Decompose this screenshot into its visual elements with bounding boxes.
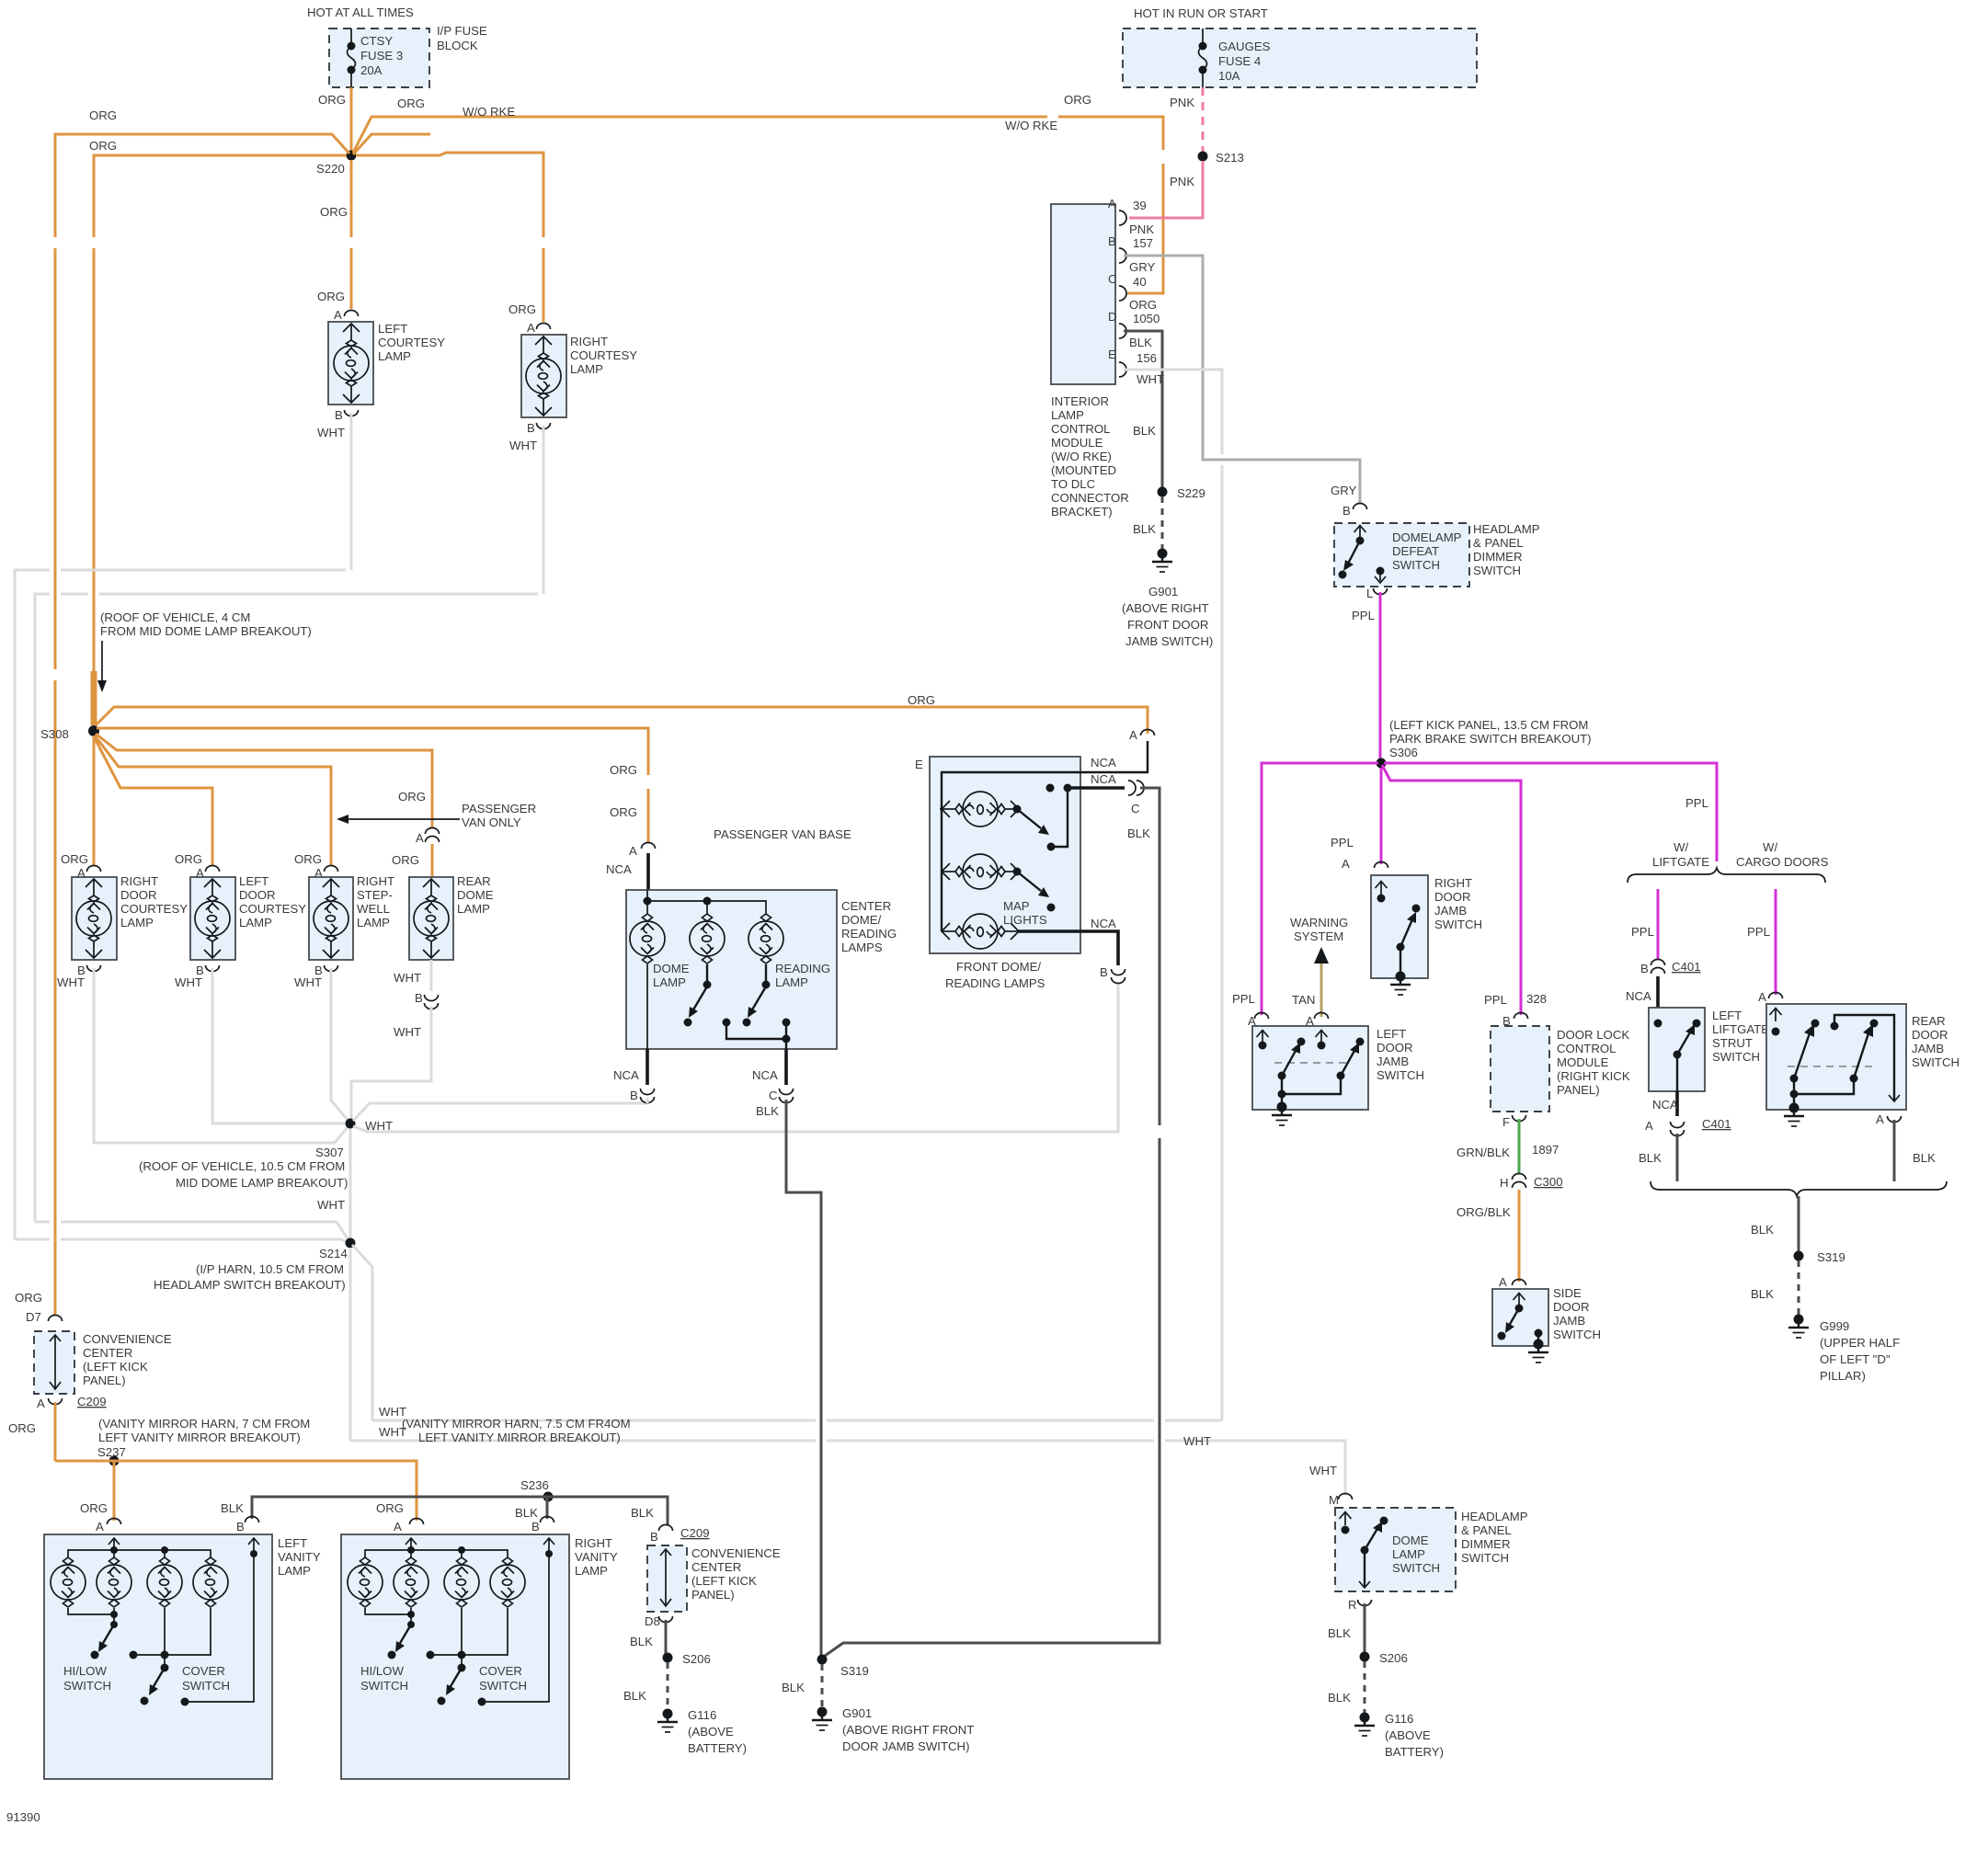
svg-text:I/P FUSE: I/P FUSE [437,24,487,38]
svg-text:PPL: PPL [1352,609,1375,622]
wire PPL to rear door jamb switch [1775,889,1777,995]
svg-text:FRONT DOME/: FRONT DOME/ [956,960,1041,974]
svg-text:(ROOF OF VEHICLE, 10.5 CM FROM: (ROOF OF VEHICLE, 10.5 CM FROM [139,1159,345,1173]
svg-text:INTERIOR: INTERIOR [1051,394,1109,408]
svg-text:& PANEL: & PANEL [1461,1523,1512,1537]
svg-text:TAN: TAN [1292,993,1315,1007]
svg-text:BLK: BLK [1127,827,1150,840]
svg-text:L: L [1366,587,1373,600]
svg-text:S236: S236 [520,1478,549,1492]
svg-text:STEP-: STEP- [357,888,393,902]
svg-text:A: A [1499,1275,1507,1289]
ground G901 (left) [812,1707,832,1731]
svg-text:DOME: DOME [653,962,690,975]
svg-text:NCA: NCA [606,862,632,876]
svg-text:BLK: BLK [1129,336,1152,349]
svg-text:SWITCH: SWITCH [1912,1055,1959,1069]
svg-text:FUSE 3: FUSE 3 [360,49,403,63]
svg-text:S220: S220 [316,162,345,176]
svg-text:ORG: ORG [398,790,426,804]
svg-text:A: A [1108,197,1116,211]
svg-text:S319: S319 [1817,1250,1845,1264]
box RIGHT VANITY LAMP [341,1534,569,1779]
svg-text:DEFEAT: DEFEAT [1392,544,1439,558]
svg-text:G116: G116 [1385,1712,1413,1726]
wire internal bus left vanity [68,1550,211,1557]
wire S307 to center dome pin B [353,1098,647,1121]
svg-text:C: C [1108,272,1117,286]
wire BLK from pin C to S319 [786,1100,822,1657]
svg-text:BLK: BLK [631,1506,654,1520]
svg-text:GRY: GRY [1129,260,1156,274]
map lamp 3 [942,914,1019,949]
svg-text:S319: S319 [840,1664,869,1678]
svg-text:91390: 91390 [6,1810,40,1824]
wire PPL S306 to right door jamb switch [1380,768,1383,864]
wire BLK from map lights C to S319 [825,788,1160,1656]
svg-text:1897: 1897 [1532,1143,1559,1157]
wire S220 left branch to S308 [94,155,347,725]
svg-text:NCA: NCA [1652,1098,1678,1112]
svg-text:(ABOVE: (ABOVE [688,1725,734,1739]
svg-text:COURTESY: COURTESY [378,336,445,349]
svg-text:G901: G901 [1148,585,1178,599]
svg-text:WHT: WHT [394,1025,421,1039]
svg-text:ORG: ORG [610,805,637,819]
wire S308 to left door courtesy lamp (ORG) [94,736,212,866]
svg-text:REAR: REAR [1912,1014,1946,1028]
svg-text:NCA: NCA [1091,772,1116,786]
svg-text:LAMP: LAMP [357,916,390,929]
wire fuse to S220 [350,87,353,153]
lamp right vanity bulb 4 [490,1557,525,1607]
svg-text:E: E [915,758,923,771]
svg-text:A: A [527,321,535,335]
svg-text:WHT: WHT [1137,372,1164,386]
svg-text:DOOR: DOOR [1377,1041,1413,1055]
svg-text:BLK: BLK [515,1506,538,1520]
wire internal bus right vanity [365,1550,508,1557]
svg-text:NCA: NCA [1091,917,1116,930]
map lamp 1 [942,792,1019,827]
wire S307 down to S214 [349,1129,352,1243]
svg-text:PPL: PPL [1685,796,1708,810]
svg-text:DOOR LOCK: DOOR LOCK [1557,1028,1629,1042]
svg-text:CENTER: CENTER [841,899,891,913]
svg-text:F: F [1502,1115,1510,1129]
svg-text:(UPPER HALF: (UPPER HALF [1820,1336,1900,1350]
lamp (middle) [690,914,725,964]
lamp left vanity bulb 2 [97,1557,131,1607]
svg-text:B: B [1342,504,1351,518]
svg-text:MID DOME LAMP BREAKOUT): MID DOME LAMP BREAKOUT) [176,1176,348,1190]
svg-text:HEADLAMP: HEADLAMP [1461,1510,1528,1523]
svg-text:A: A [96,1520,104,1534]
fuse GAUGES FUSE 4 in dashed block [1123,29,1477,87]
svg-text:VANITY: VANITY [278,1550,321,1564]
svg-text:ORG: ORG [89,108,117,122]
wire PNK to module pin A [1129,161,1203,218]
svg-text:ORG: ORG [294,852,322,866]
svg-text:MODULE: MODULE [1557,1055,1609,1069]
wire PPL S306 to door lock module [1382,765,1521,1015]
svg-text:PANEL): PANEL) [691,1588,735,1602]
svg-text:ORG: ORG [376,1501,404,1515]
svg-text:BLK: BLK [221,1501,244,1515]
wire thick breakout segment above S308 [91,671,97,725]
svg-text:WARNING: WARNING [1290,916,1348,929]
svg-text:JAMB SWITCH): JAMB SWITCH) [1125,634,1213,648]
svg-text:BRACKET): BRACKET) [1051,505,1113,519]
svg-text:A: A [1758,990,1766,1004]
svg-text:HI/LOW: HI/LOW [63,1664,107,1678]
svg-text:B: B [335,408,343,422]
svg-text:GRN/BLK: GRN/BLK [1457,1146,1510,1159]
svg-text:C401: C401 [1702,1117,1731,1131]
svg-text:COURTESY: COURTESY [120,902,188,916]
svg-text:READING LAMPS: READING LAMPS [945,976,1045,990]
svg-text:WHT: WHT [394,971,421,985]
lamp left vanity bulb 4 [193,1557,228,1607]
svg-text:LIFTGATE: LIFTGATE [1652,855,1709,869]
svg-text:A: A [416,831,424,845]
wire S307 to front dome pin B [353,982,1118,1132]
svg-text:ORG: ORG [15,1291,42,1305]
svg-text:WHT: WHT [1183,1434,1211,1448]
svg-text:RIGHT: RIGHT [120,874,158,888]
svg-text:C300: C300 [1534,1175,1563,1189]
svg-text:ORG: ORG [397,97,425,110]
wire right door WHT to S307 [94,968,348,1143]
svg-text:SWITCH: SWITCH [479,1679,527,1693]
switch LEFT DOOR JAMB SWITCH [1252,1026,1368,1110]
svg-text:39: 39 [1133,199,1147,212]
SEC1 [1051,6,1477,1420]
svg-text:READING: READING [775,962,830,975]
switch LEFT LIFTGATE STRUT SWITCH [1649,1008,1705,1091]
svg-text:C401: C401 [1672,960,1701,974]
svg-text:MAP: MAP [1003,899,1030,913]
svg-text:W/: W/ [1674,840,1688,854]
svg-text:ORG: ORG [392,853,419,867]
svg-text:WHT: WHT [57,975,85,989]
svg-text:ORG: ORG [61,852,88,866]
svg-text:JAMB: JAMB [1377,1055,1409,1068]
svg-text:ORG: ORG [317,290,345,303]
svg-text:(LEFT KICK PANEL, 13.5 CM FROM: (LEFT KICK PANEL, 13.5 CM FROM [1389,718,1588,732]
svg-text:LEFT VANITY MIRROR BREAKOUT): LEFT VANITY MIRROR BREAKOUT) [418,1431,621,1444]
map lamp 2 [942,854,1019,889]
switch HI/LOW (left vanity) [68,1608,114,1625]
svg-text:40: 40 [1133,275,1147,289]
svg-text:157: 157 [1133,236,1153,250]
svg-text:DOOR: DOOR [1553,1300,1590,1314]
svg-text:REAR: REAR [457,874,491,888]
wire left vanity return to B [185,1552,254,1702]
svg-text:BLK: BLK [1328,1626,1351,1640]
svg-text:DOOR JAMB SWITCH): DOOR JAMB SWITCH) [842,1739,969,1753]
wire PPL S306 to left door jamb switch [1262,763,1378,1015]
lamp REAR DOME LAMP [409,877,453,960]
wire ORG S237 bus [55,1461,417,1521]
svg-text:LEFT: LEFT [278,1536,307,1550]
svg-text:LAMP: LAMP [120,916,154,929]
svg-text:PPL: PPL [1747,925,1770,939]
svg-text:LAMP: LAMP [1392,1547,1425,1561]
wire right courtesy WHT to S214 [35,426,543,1243]
svg-text:COVER: COVER [182,1664,225,1678]
switch RIGHT DOOR JAMB SWITCH [1371,875,1428,978]
svg-text:ORG: ORG [1129,298,1157,312]
svg-text:B: B [1640,962,1649,975]
svg-text:A: A [629,844,637,858]
dome lamp output to pin B [646,964,648,1049]
svg-text:JAMB: JAMB [1912,1042,1944,1055]
svg-text:BLK: BLK [756,1104,779,1118]
svg-text:BLK: BLK [630,1635,653,1648]
svg-text:CONVENIENCE: CONVENIENCE [83,1332,172,1346]
lamp right vanity bulb 3 [444,1557,479,1607]
wire ORG down to S237 [54,1402,57,1461]
svg-text:DOOR: DOOR [1912,1028,1948,1042]
svg-text:WHT: WHT [294,975,322,989]
svg-text:B: B [650,1530,658,1544]
svg-text:DIMMER: DIMMER [1473,550,1522,564]
wire PPL to liftgate strut switch [1657,889,1660,960]
svg-text:(I/P HARN, 10.5 CM FROM: (I/P HARN, 10.5 CM FROM [196,1262,344,1276]
svg-text:156: 156 [1137,351,1157,365]
switch REAR DOOR JAMB SWITCH [1766,1004,1906,1110]
svg-text:B: B [1108,234,1116,248]
svg-text:WHT: WHT [1309,1464,1337,1477]
svg-text:OF LEFT "D": OF LEFT "D" [1820,1352,1891,1366]
svg-text:328: 328 [1526,992,1547,1006]
svg-text:B: B [415,991,423,1005]
svg-text:ORG: ORG [318,93,346,107]
svg-text:SWITCH: SWITCH [360,1679,408,1693]
switch HI/LOW (right vanity) [365,1608,411,1625]
svg-text:DOMELAMP: DOMELAMP [1392,530,1462,544]
svg-text:(ABOVE RIGHT: (ABOVE RIGHT [1122,601,1209,615]
wire PPL S306 to liftgate/cargo brace [1384,763,1717,861]
svg-text:COURTESY: COURTESY [239,902,306,916]
wire GRN/BLK 1897 [1518,1119,1521,1173]
svg-text:SWITCH: SWITCH [1461,1551,1509,1565]
svg-text:BLOCK: BLOCK [437,39,478,52]
svg-text:GAUGES: GAUGES [1218,40,1271,53]
svg-text:PANEL): PANEL) [1557,1083,1600,1097]
svg-text:S308: S308 [40,727,69,741]
wire W/O RKE to module pin C [353,117,1163,293]
wire stub ORG [353,134,430,154]
node S213 [1198,152,1208,162]
svg-text:(ABOVE RIGHT FRONT: (ABOVE RIGHT FRONT [842,1723,974,1737]
svg-text:SWITCH: SWITCH [1392,558,1440,572]
svg-text:LAMP: LAMP [575,1564,608,1578]
svg-text:ORG: ORG [908,693,935,707]
wire S220 to right courtesy lamp [356,153,543,322]
svg-text:FUSE 4: FUSE 4 [1218,54,1261,68]
SEC4 [1232,504,1959,1384]
svg-text:CENTER: CENTER [83,1346,132,1360]
wire rear dome WHT to S307 [351,960,431,1119]
switch arms inside [703,981,712,989]
svg-text:PPL: PPL [1331,836,1354,849]
svg-text:NCA: NCA [752,1068,778,1082]
svg-text:HOT AT ALL TIMES: HOT AT ALL TIMES [307,6,414,19]
node S306 [1377,758,1387,769]
svg-text:CTSY: CTSY [360,34,393,48]
svg-text:SWITCH: SWITCH [1712,1050,1760,1064]
svg-text:LEFT: LEFT [239,874,268,888]
svg-text:SYSTEM: SYSTEM [1294,929,1343,943]
svg-text:BLK: BLK [623,1689,646,1703]
svg-text:& PANEL: & PANEL [1473,536,1524,550]
svg-text:BATTERY): BATTERY) [688,1741,747,1755]
svg-text:VAN ONLY: VAN ONLY [462,815,521,829]
svg-text:PASSENGER VAN BASE: PASSENGER VAN BASE [714,827,851,841]
svg-text:DOME/: DOME/ [841,913,882,927]
wire left door WHT to S307 [212,968,345,1123]
svg-text:M: M [1329,1493,1339,1507]
lamp left vanity bulb 3 [147,1557,182,1607]
svg-text:S307: S307 [315,1146,344,1159]
svg-text:BLK: BLK [1751,1287,1774,1301]
wire PNK dashed to S213 [1202,87,1205,152]
svg-text:ORG/BLK: ORG/BLK [1457,1205,1511,1219]
svg-text:D8: D8 [645,1614,660,1628]
svg-text:SWITCH: SWITCH [1392,1561,1440,1575]
svg-text:LAMP: LAMP [278,1564,311,1578]
svg-text:WHT: WHT [317,426,345,439]
svg-text:PNK: PNK [1170,175,1194,188]
lamp READING LAMP [748,914,783,964]
svg-text:A: A [1876,1112,1884,1126]
svg-text:FROM MID DOME LAMP BREAKOUT): FROM MID DOME LAMP BREAKOUT) [100,624,312,638]
svg-text:LAMP: LAMP [239,916,272,929]
wire PPL defeat switch to S306 [1379,592,1382,760]
svg-text:LIFTGATE: LIFTGATE [1712,1022,1769,1036]
svg-text:PASSENGER: PASSENGER [462,802,536,815]
wire ORG/BLK [1518,1190,1521,1282]
node S220 [347,151,357,161]
svg-text:DOOR: DOOR [1434,890,1471,904]
svg-text:LEFT: LEFT [1712,1009,1742,1022]
ground G901 [1152,549,1172,573]
wire S308 down to right door courtesy lamp (ORG) [93,735,96,866]
svg-text:A: A [394,1520,402,1534]
svg-text:DIMMER: DIMMER [1461,1537,1510,1551]
svg-text:FRONT DOOR: FRONT DOOR [1127,618,1208,632]
svg-text:PILLAR): PILLAR) [1820,1369,1866,1383]
svg-text:10A: 10A [1218,69,1240,83]
svg-text:A: A [334,308,342,322]
wire right vanity return to B [482,1552,549,1702]
module INTERIOR LAMP CONTROL MODULE [1051,204,1115,384]
node S308 [88,725,99,736]
svg-text:HEADLAMP SWITCH BREAKOUT): HEADLAMP SWITCH BREAKOUT) [154,1278,346,1292]
lamp right vanity bulb 2 [394,1557,428,1607]
svg-text:RIGHT: RIGHT [570,335,608,348]
svg-text:SIDE: SIDE [1553,1286,1582,1300]
svg-text:S213: S213 [1216,151,1244,165]
svg-text:WHT: WHT [317,1198,345,1212]
svg-text:CONVENIENCE: CONVENIENCE [691,1546,781,1560]
svg-text:(ABOVE: (ABOVE [1385,1728,1431,1742]
svg-text:B: B [1100,965,1108,979]
svg-text:S206: S206 [1379,1651,1408,1665]
svg-text:STRUT: STRUT [1712,1036,1753,1050]
svg-text:G116: G116 [688,1708,716,1722]
svg-text:D7: D7 [26,1310,41,1324]
fuse CTSY FUSE 3 in I/P fuse block [329,29,429,87]
svg-text:BLK: BLK [1133,522,1156,536]
svg-text:ORG: ORG [508,302,536,316]
svg-text:ORG: ORG [320,205,348,219]
svg-text:SWITCH: SWITCH [63,1679,111,1693]
pin A arrow right vanity [406,1538,417,1550]
svg-text:LAMP: LAMP [653,975,686,989]
svg-text:BLK: BLK [1913,1151,1936,1165]
svg-text:WHT: WHT [175,975,202,989]
svg-text:NCA: NCA [1091,756,1116,770]
switch COVER (right vanity) [430,1608,508,1655]
svg-text:HI/LOW: HI/LOW [360,1664,404,1678]
svg-text:(ROOF OF VEHICLE, 4 CM: (ROOF OF VEHICLE, 4 CM [100,610,250,624]
svg-text:BLK: BLK [1639,1151,1662,1165]
svg-text:COVER: COVER [479,1664,522,1678]
svg-text:W/O RKE: W/O RKE [463,105,515,119]
svg-text:DOOR: DOOR [120,888,157,902]
lamp DOME LAMP [630,914,665,964]
svg-text:READING: READING [841,927,897,941]
svg-text:LIGHTS: LIGHTS [1003,913,1047,927]
svg-text:PPL: PPL [1631,925,1654,939]
svg-text:H: H [1500,1176,1509,1190]
svg-text:CONTROL: CONTROL [1051,422,1110,436]
svg-text:PPL: PPL [1232,992,1255,1006]
svg-text:RIGHT: RIGHT [357,874,394,888]
svg-text:VANITY: VANITY [575,1550,618,1564]
svg-text:20A: 20A [360,63,383,77]
wire S308 to rear dome lamp (ORG) [96,734,432,877]
svg-text:LEFT: LEFT [378,322,407,336]
wire S308 to right step-well lamp (ORG) [95,735,331,866]
svg-text:JAMB: JAMB [1553,1314,1585,1328]
svg-text:S229: S229 [1177,486,1205,500]
wire S214 jog to WHT line1 (to module pin E) [352,1245,1222,1420]
svg-text:A: A [1342,857,1350,871]
svg-text:CENTER: CENTER [691,1560,741,1574]
svg-text:(LEFT KICK: (LEFT KICK [691,1574,757,1588]
svg-text:SWITCH: SWITCH [1434,918,1482,931]
svg-text:SWITCH: SWITCH [1553,1328,1601,1341]
switch COVER (left vanity) [133,1608,211,1655]
svg-text:W/: W/ [1763,840,1777,854]
svg-text:LAMP: LAMP [457,902,490,916]
lamp right vanity bulb 1 [348,1557,383,1607]
svg-text:LEFT VANITY MIRROR BREAKOUT): LEFT VANITY MIRROR BREAKOUT) [98,1431,301,1444]
svg-text:HEADLAMP: HEADLAMP [1473,522,1540,536]
svg-text:PPL: PPL [1484,993,1507,1007]
svg-text:(LEFT KICK: (LEFT KICK [83,1360,148,1374]
svg-text:A: A [37,1397,45,1410]
svg-text:PNK: PNK [1170,96,1194,109]
svg-text:SWITCH: SWITCH [1377,1068,1424,1082]
box CENTER DOME/READING LAMPS [626,890,837,1049]
svg-text:(W/O RKE): (W/O RKE) [1051,450,1112,463]
svg-text:RIGHT: RIGHT [575,1536,612,1550]
